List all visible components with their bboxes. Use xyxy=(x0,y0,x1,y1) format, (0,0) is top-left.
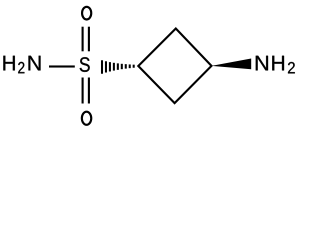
double bond S=O bottom, line 2 xyxy=(88,78,90,104)
atom label N of NH2 xyxy=(256,56,268,71)
chemical structure drawing: trans-3-aminocyclobutane-1-sulfonamide xyxy=(0,0,300,133)
double bond S=O bottom, line 1 xyxy=(82,78,84,104)
atom label H of NH2 xyxy=(272,56,284,71)
atom label O bottom oxygen xyxy=(82,112,91,125)
single bond N-S xyxy=(49,65,75,67)
atom label subscript 2 of H2N xyxy=(18,62,24,73)
atom label H of H2N xyxy=(3,56,14,71)
white background xyxy=(0,0,300,133)
atom label N of H2N xyxy=(29,56,41,71)
solid wedge bond ring C3 to NH2 xyxy=(211,59,251,70)
hashed wedge bond S to ring C1, 9 bars xyxy=(101,60,135,74)
double bond S=O top, line 1 xyxy=(82,27,84,52)
atom label S sulfur xyxy=(80,57,90,72)
atom label O top oxygen xyxy=(82,7,91,20)
cyclobutane ring (bonds C1-C2, C2-C3, C3-C4, C4-C1) xyxy=(138,29,211,104)
atom label subscript 2 of NH2 xyxy=(288,62,295,73)
double bond S=O top, line 2 xyxy=(88,27,90,52)
